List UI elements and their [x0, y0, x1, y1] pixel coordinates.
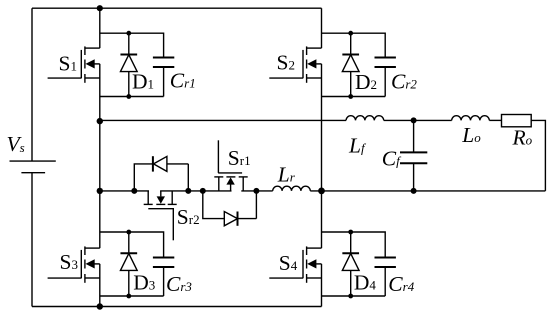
wire node A to filter (crosses right rail, no junction): [100, 119, 346, 121]
node Dr2 loop right: [185, 188, 191, 194]
diode D1: [120, 33, 137, 96]
capacitor Cr4: [375, 258, 396, 268]
wire Dr2 loop left riser: [134, 164, 153, 191]
wire S4 cell top: [322, 232, 386, 258]
node bottom-left junction: [97, 303, 103, 309]
capacitor Cf top lead: [413, 120, 415, 152]
capacitor Cr2: [375, 58, 396, 68]
wire middle node A segment: [100, 190, 149, 192]
inductor Lf: [346, 116, 384, 121]
transistor S4: [269, 246, 321, 282]
right bridge rail middle (S2 source to S4 drain): [321, 64, 323, 248]
node D2 bottom: [348, 94, 353, 99]
capacitor Cf bottom lead: [413, 163, 415, 191]
wire aux middle segment: [160, 190, 231, 192]
resistor Ro: [502, 115, 532, 127]
wire Lf to Lo: [384, 119, 452, 121]
left bridge rail middle (S1 source to S3 drain): [99, 64, 101, 248]
top rail: [32, 7, 322, 9]
transistor S1: [48, 46, 100, 82]
diode D4: [342, 232, 359, 295]
transistor Sr1: [214, 140, 247, 191]
transistor S2: [269, 46, 321, 82]
left rail upper segment: [31, 8, 33, 161]
node A junction: [97, 118, 103, 124]
left rail lower segment: [31, 173, 33, 307]
diode Dr1 (series under Sr1): [224, 212, 237, 226]
wire to Lr: [241, 190, 272, 192]
wire Cr1 bottom lead: [163, 67, 165, 97]
node D2 top: [348, 31, 353, 36]
wire S3 cell bottom: [100, 295, 164, 297]
wire S2 cell bottom: [322, 96, 386, 98]
capacitor Cf: [400, 151, 427, 153]
wire S3 cell top: [100, 232, 164, 258]
node top-left junction: [97, 5, 103, 11]
wire Lr to right edge (node B and output return): [310, 190, 545, 192]
wire Cr4 bottom lead: [384, 267, 386, 296]
node B junction: [318, 188, 325, 195]
wire S1 cell top: [100, 33, 164, 57]
wire S1 cell bottom: [100, 96, 164, 98]
wire Dr2 loop right riser: [167, 164, 188, 191]
node C junction: [411, 117, 417, 123]
node Cf bottom junction: [411, 188, 417, 194]
wire Cr3 bottom lead: [163, 267, 165, 296]
capacitor Cr3: [153, 258, 174, 268]
right bridge rail top (S2 drain): [321, 8, 323, 48]
wire Dr1 loop left drop: [203, 191, 225, 219]
left bridge rail top (S1 drain): [99, 8, 101, 48]
right bridge rail bottom (S4 source): [321, 264, 323, 307]
node D3 top: [126, 230, 131, 235]
diode D2: [342, 33, 359, 96]
node D3 bottom: [126, 294, 131, 299]
left bridge rail bottom (S3 source): [99, 264, 101, 307]
node D4 bottom: [348, 294, 353, 299]
bottom rail: [32, 306, 322, 308]
capacitor Cr1: [153, 58, 174, 68]
node Dr1 loop right: [253, 188, 259, 194]
diode Dr2 (antiparallel over Sr2): [152, 156, 154, 171]
transistor S3: [48, 246, 100, 282]
wire Ro to right edge down: [531, 120, 545, 190]
inductor Lo: [452, 116, 490, 121]
inductor Lr: [273, 186, 311, 191]
wire Dr1 loop right riser: [238, 191, 257, 219]
diode D3: [120, 232, 137, 295]
transistor Sr2: [144, 191, 177, 240]
node D1 top: [126, 31, 131, 36]
wire S4 cell bottom: [322, 295, 386, 297]
battery Vs long plate: [10, 160, 56, 162]
node D1 bottom: [126, 94, 131, 99]
node Dr2 loop left: [131, 188, 137, 194]
node Dr1 loop left: [200, 188, 206, 194]
node aux-left junction: [97, 188, 103, 194]
wire Lo to Ro: [489, 119, 501, 121]
node D4 top: [348, 230, 353, 235]
wire S2 cell top: [322, 33, 386, 57]
wire Cr2 bottom lead: [384, 67, 386, 97]
battery Vs short plate: [21, 172, 45, 174]
